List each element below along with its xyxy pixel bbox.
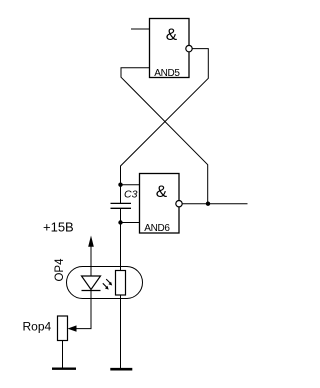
- wire AND5 input 2 from AND6 output (cross coupling): [121, 68, 208, 204]
- wire AND6 input 2: [121, 222, 140, 224]
- supply arrow up: [88, 236, 94, 277]
- resistor Rop4: [58, 316, 68, 341]
- wire C3 bottom plate to lower node: [120, 208, 122, 222]
- wire Rop4 to ground: [62, 341, 64, 369]
- svg-text:OP4: OP4: [54, 258, 66, 282]
- wire AND5 output to AND6 input 1 (cross coupling): [121, 49, 209, 185]
- ground bar under Rop4: [52, 368, 76, 370]
- photoresistor inside OP4: [116, 271, 126, 296]
- wire AND6 input 1: [121, 184, 140, 186]
- junction node dot at AND6 input 2: [118, 220, 122, 224]
- wire lower node down to photoresistor of OP4: [120, 223, 122, 271]
- and-gate U AND6 body: [140, 174, 180, 235]
- optocoupler OP4 stadium outline: [67, 267, 143, 299]
- wire photoresistor to ground: [120, 295, 122, 368]
- svg-text:AND6: AND6: [144, 223, 170, 234]
- svg-text:Rop4: Rop4: [23, 320, 52, 334]
- optical coupling arrowhead into Rop4: [68, 325, 77, 331]
- svg-text:AND5: AND5: [154, 68, 180, 79]
- junction node dot on AND6 output: [206, 202, 210, 206]
- svg-text:C3: C3: [124, 189, 138, 201]
- capacitor C3: [111, 203, 132, 208]
- svg-text:&: &: [156, 182, 168, 201]
- wire AND5 input 1 stub: [131, 28, 150, 30]
- LED of OP4: [82, 276, 101, 291]
- svg-text:&: &: [166, 25, 178, 44]
- and-gate U AND5 body: [150, 19, 190, 79]
- ground bar under photoresistor: [110, 368, 132, 371]
- svg-text:+15В: +15В: [43, 220, 74, 235]
- inverter bubble on AND6 output: [176, 201, 182, 207]
- wire from node to C3 top plate: [120, 185, 122, 204]
- wire LED cathode down and left to coupling arrow: [76, 291, 92, 329]
- inverter bubble on AND5 output: [186, 45, 192, 51]
- wire AND6 output: [182, 203, 247, 205]
- light arrows from LED to photoresistor: [103, 279, 112, 290]
- junction node dot at AND6 input 1: [118, 183, 122, 187]
